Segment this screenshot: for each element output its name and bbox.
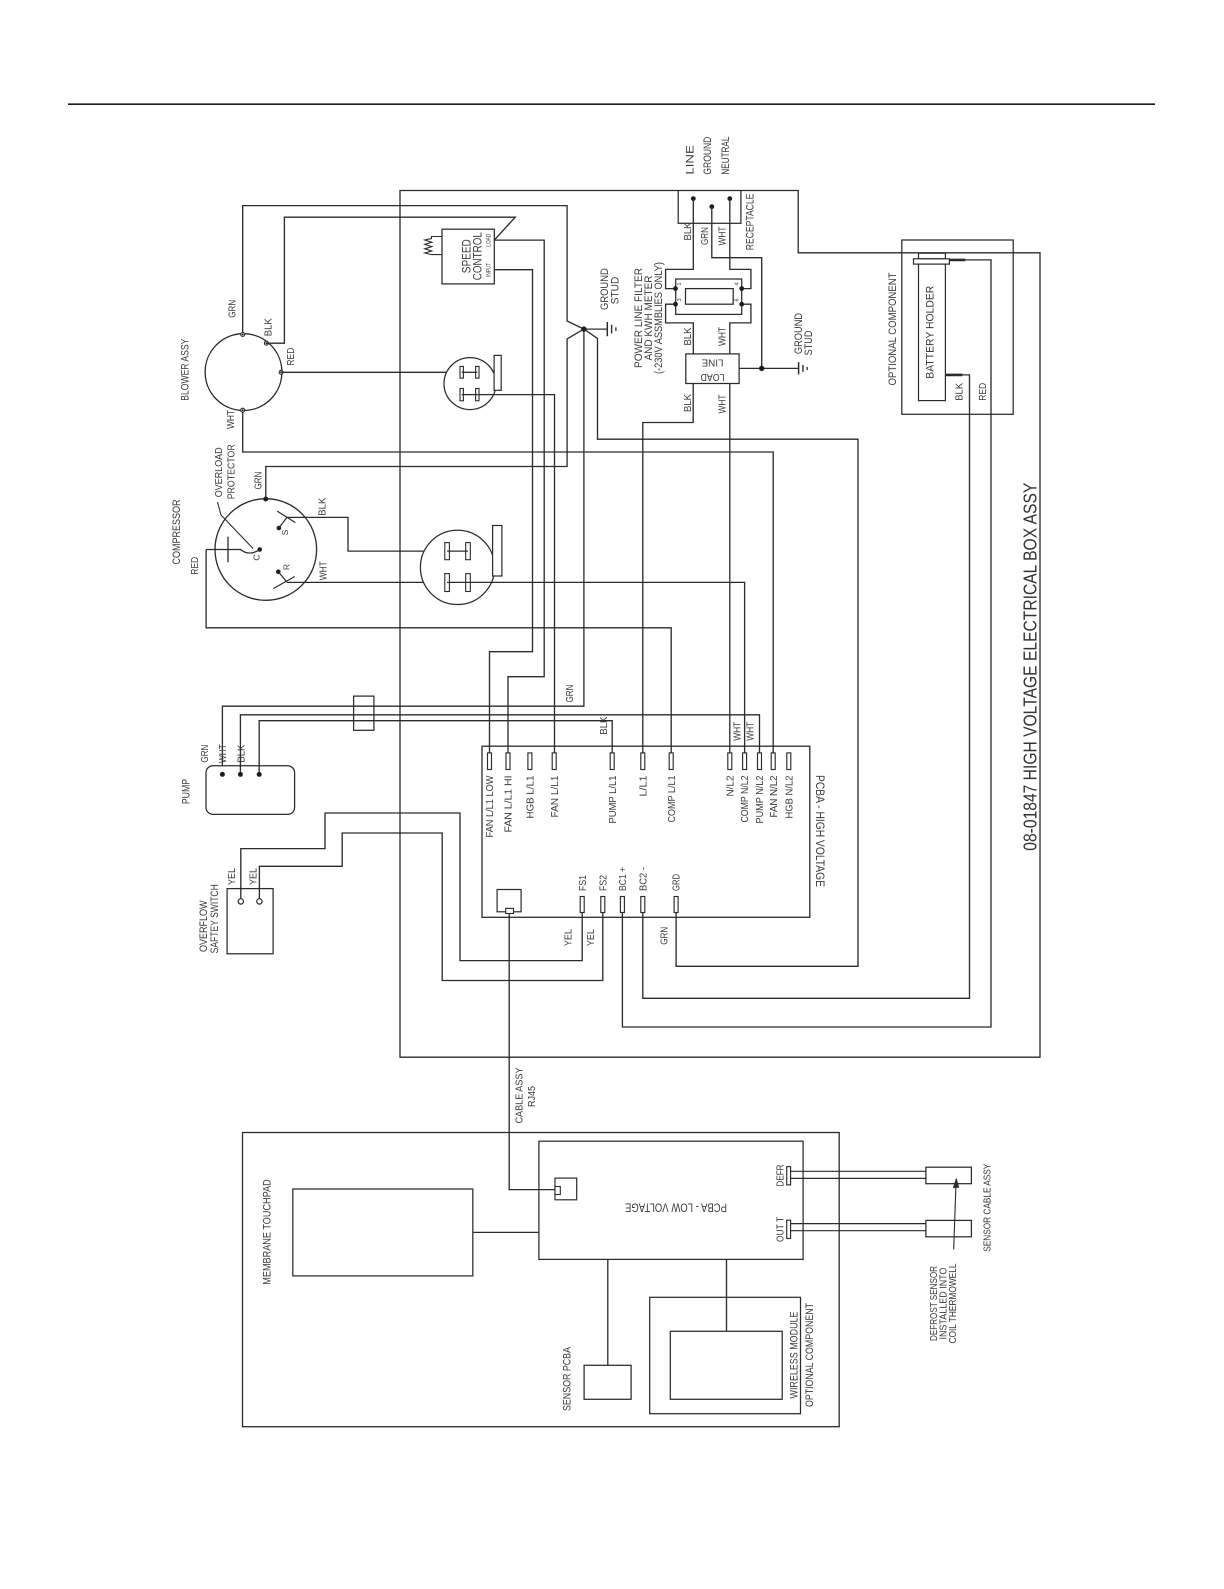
svg-text:PCBA - LOW VOLTAGE: PCBA - LOW VOLTAGE bbox=[625, 1201, 727, 1213]
svg-text:BATTERY HOLDER: BATTERY HOLDER bbox=[925, 286, 937, 379]
svg-text:CONTROL: CONTROL bbox=[471, 232, 485, 280]
svg-text:08-01847 HIGH VOLTAGE ELECTRIC: 08-01847 HIGH VOLTAGE ELECTRICAL BOX ASS… bbox=[1019, 483, 1040, 851]
svg-text:YEL: YEL bbox=[564, 929, 575, 946]
svg-text:BLK: BLK bbox=[683, 222, 694, 240]
svg-text:RJ45: RJ45 bbox=[527, 1086, 538, 1107]
svg-text:PUMP L/L1: PUMP L/L1 bbox=[608, 775, 619, 823]
svg-text:PROTECTOR: PROTECTOR bbox=[226, 444, 237, 499]
svg-text:BLK: BLK bbox=[683, 394, 694, 412]
svg-text:SENSOR PCBA: SENSOR PCBA bbox=[561, 1346, 573, 1411]
svg-text:RECEPTACLE: RECEPTACLE bbox=[745, 194, 757, 251]
svg-text:N/L2: N/L2 bbox=[725, 775, 736, 796]
svg-text:HGB N/L2: HGB N/L2 bbox=[784, 775, 795, 818]
svg-text:YEL: YEL bbox=[586, 929, 597, 946]
svg-text:WHT: WHT bbox=[226, 410, 237, 429]
svg-text:LOAD: LOAD bbox=[701, 371, 725, 382]
svg-text:S: S bbox=[280, 529, 290, 535]
svg-text:YEL: YEL bbox=[227, 868, 238, 885]
svg-text:WHT: WHT bbox=[218, 744, 229, 763]
svg-text:DEFR: DEFR bbox=[776, 1165, 787, 1187]
svg-text:SAFTEY SWITCH: SAFTEY SWITCH bbox=[209, 884, 221, 953]
svg-text:FS2: FS2 bbox=[598, 875, 609, 891]
svg-text:COMP L/L1: COMP L/L1 bbox=[667, 775, 678, 822]
svg-text:3: 3 bbox=[677, 298, 683, 301]
svg-text:LINE: LINE bbox=[701, 356, 723, 367]
svg-text:WHT: WHT bbox=[718, 395, 729, 414]
svg-text:COMPRESSOR: COMPRESSOR bbox=[171, 499, 183, 564]
svg-text:INPUT: INPUT bbox=[486, 263, 492, 277]
svg-text:WHT: WHT bbox=[732, 722, 743, 741]
svg-text:GRN: GRN bbox=[227, 300, 238, 318]
svg-text:STUD: STUD bbox=[610, 277, 622, 305]
svg-text:FAN L/L1: FAN L/L1 bbox=[550, 775, 561, 817]
svg-text:GRD: GRD bbox=[672, 874, 683, 891]
svg-text:BLK: BLK bbox=[318, 497, 329, 515]
svg-text:WHT: WHT bbox=[318, 561, 329, 580]
svg-text:OVERLOAD: OVERLOAD bbox=[214, 447, 225, 497]
svg-text:WHT: WHT bbox=[718, 227, 729, 246]
svg-text:GRN: GRN bbox=[565, 685, 576, 703]
svg-text:LINE: LINE bbox=[685, 145, 697, 174]
svg-text:LOAD: LOAD bbox=[486, 233, 492, 247]
svg-text:YEL: YEL bbox=[249, 868, 260, 885]
svg-text:BLK: BLK bbox=[599, 716, 610, 734]
svg-text:COIL THERMOWELL: COIL THERMOWELL bbox=[948, 1263, 959, 1343]
svg-text:RED: RED bbox=[286, 348, 297, 366]
svg-text:HGB L/L1: HGB L/L1 bbox=[526, 775, 537, 818]
svg-text:4: 4 bbox=[735, 282, 741, 285]
svg-text:GROUND: GROUND bbox=[702, 137, 714, 175]
svg-text:OPTIONAL COMPONENT: OPTIONAL COMPONENT bbox=[887, 272, 899, 385]
svg-text:(-230V ASSMBLIES ONLY): (-230V ASSMBLIES ONLY) bbox=[653, 262, 665, 374]
svg-text:PUMP: PUMP bbox=[181, 779, 193, 804]
svg-text:L/L1: L/L1 bbox=[638, 775, 649, 796]
svg-text:COMP N/L2: COMP N/L2 bbox=[740, 775, 751, 822]
svg-text:WIRELESS MODULE: WIRELESS MODULE bbox=[789, 1312, 801, 1399]
svg-text:C: C bbox=[251, 554, 261, 560]
svg-text:GRN: GRN bbox=[660, 927, 671, 945]
svg-text:WHT: WHT bbox=[718, 327, 729, 346]
svg-text:1: 1 bbox=[677, 282, 683, 285]
svg-text:RED: RED bbox=[190, 557, 201, 575]
svg-text:FAN L/L1 HI: FAN L/L1 HI bbox=[504, 776, 515, 833]
svg-text:RED: RED bbox=[978, 383, 989, 401]
svg-text:PUMP N/L2: PUMP N/L2 bbox=[755, 775, 766, 823]
svg-text:NEUTRAL: NEUTRAL bbox=[720, 137, 732, 175]
svg-text:BLK: BLK bbox=[237, 744, 248, 762]
svg-text:FAN L/L1 LOW: FAN L/L1 LOW bbox=[485, 775, 496, 838]
svg-text:STUD: STUD bbox=[803, 330, 815, 355]
svg-text:GRN: GRN bbox=[200, 745, 211, 763]
svg-text:BC2 -: BC2 - bbox=[638, 867, 649, 891]
svg-text:6: 6 bbox=[735, 298, 741, 301]
svg-text:BLOWER ASSY: BLOWER ASSY bbox=[180, 338, 192, 401]
svg-text:WHT: WHT bbox=[745, 722, 756, 741]
svg-text:MEMBRANE TOUCHPAD: MEMBRANE TOUCHPAD bbox=[261, 1179, 273, 1285]
svg-text:BLK: BLK bbox=[955, 382, 966, 400]
svg-text:BLK: BLK bbox=[263, 318, 274, 336]
svg-text:FS1: FS1 bbox=[578, 875, 589, 891]
svg-text:GRN: GRN bbox=[254, 472, 265, 490]
svg-text:OUT T: OUT T bbox=[776, 1217, 787, 1242]
svg-text:BC1 +: BC1 + bbox=[618, 867, 629, 891]
svg-text:R: R bbox=[282, 564, 292, 570]
svg-text:PCBA - HIGH VOLTAGE: PCBA - HIGH VOLTAGE bbox=[813, 775, 825, 887]
svg-text:GRN: GRN bbox=[700, 227, 711, 245]
svg-text:FAN N/L2: FAN N/L2 bbox=[769, 775, 780, 817]
svg-text:BLK: BLK bbox=[683, 327, 694, 345]
svg-text:SENSOR CABLE ASSY: SENSOR CABLE ASSY bbox=[982, 1163, 993, 1251]
svg-text:CABLE ASSY: CABLE ASSY bbox=[515, 1067, 526, 1123]
svg-text:OPTIONAL COMPONENT: OPTIONAL COMPONENT bbox=[804, 1303, 816, 1407]
